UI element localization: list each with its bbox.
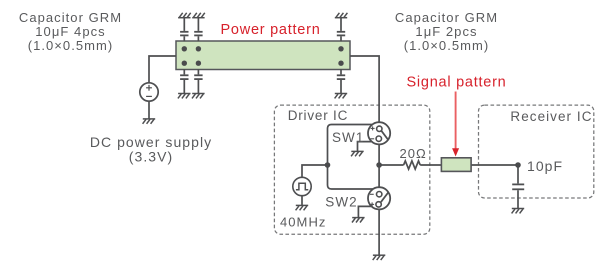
svg-text:1μF 2pcs: 1μF 2pcs (415, 24, 477, 39)
svg-text:20Ω: 20Ω (400, 146, 427, 161)
svg-text:(1.0×0.5mm): (1.0×0.5mm) (404, 38, 490, 53)
svg-text:Receiver IC: Receiver IC (510, 109, 592, 124)
svg-text:40MHz: 40MHz (280, 214, 326, 229)
svg-text:Capacitor GRM: Capacitor GRM (19, 10, 122, 25)
svg-text:Signal pattern: Signal pattern (407, 74, 507, 90)
svg-text:(1.0×0.5mm): (1.0×0.5mm) (28, 38, 114, 53)
svg-text:SW1: SW1 (332, 130, 364, 145)
svg-text:Capacitor GRM: Capacitor GRM (395, 10, 498, 25)
svg-text:10μF 4pcs: 10μF 4pcs (35, 24, 105, 39)
svg-text:Driver IC: Driver IC (288, 108, 348, 123)
svg-text:(3.3V): (3.3V) (129, 148, 173, 164)
svg-text:Power pattern: Power pattern (220, 22, 320, 38)
svg-text:SW2: SW2 (325, 194, 357, 209)
svg-text:10pF: 10pF (527, 158, 563, 174)
